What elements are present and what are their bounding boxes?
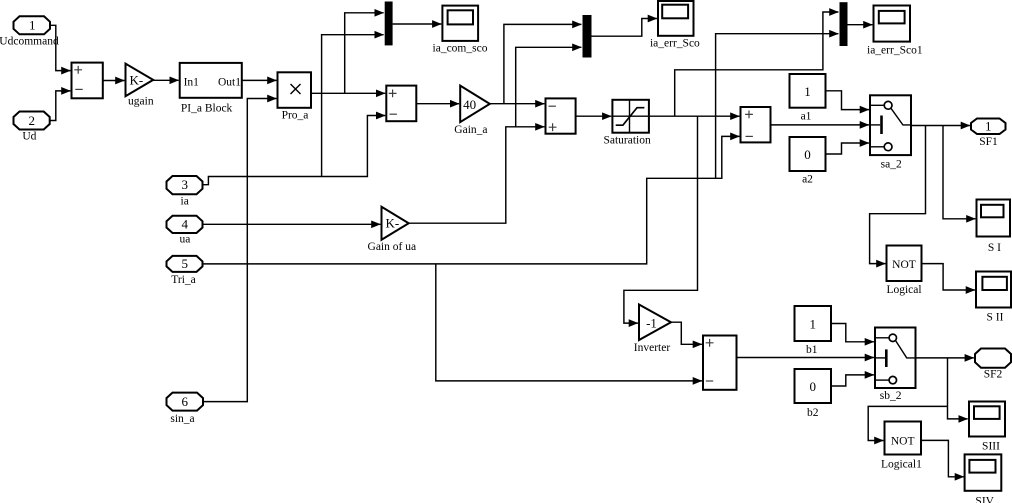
scope ia_com_sco [433, 6, 488, 55]
svg-text:In1: In1 [184, 76, 200, 88]
svg-text:1: 1 [804, 84, 811, 99]
wire branch to scope SIII [948, 358, 968, 419]
svg-text:Inverter: Inverter [634, 342, 671, 354]
svg-text:a2: a2 [802, 173, 813, 185]
svg-text:K-: K- [385, 216, 399, 231]
svg-text:NOT: NOT [892, 259, 916, 271]
wire constant b1 to sb_2 input 1 [831, 324, 874, 342]
wire Gain of ua to sum3 plus [409, 127, 545, 223]
constant a1 [790, 74, 826, 122]
scope SIV [965, 454, 1002, 503]
svg-text:3: 3 [181, 177, 188, 192]
svg-text:ia_com_sco: ia_com_sco [433, 42, 488, 54]
wire branch saturation to Inverter [624, 116, 698, 323]
svg-text:Ud: Ud [22, 131, 36, 143]
constant b1 [795, 306, 832, 356]
svg-text:Out1: Out1 [218, 76, 241, 88]
svg-text:Saturation: Saturation [603, 134, 651, 146]
saturation block [603, 100, 651, 147]
svg-text:SF2: SF2 [984, 368, 1003, 380]
gain ugain K- [126, 64, 154, 108]
svg-text:ugain: ugain [128, 95, 154, 107]
wire port6 sin_a to Pro_a input 2 [203, 99, 276, 402]
wire branch Tri_a to mux3 input 2 [716, 34, 839, 179]
wire branch ia to mux1 input 2 [322, 35, 384, 177]
subsystem PI_a Block [180, 63, 242, 114]
sum block 2 [386, 86, 416, 122]
wire sum4 to switch sa_2 middle input [771, 124, 869, 126]
logical operator NOT Logical1 [881, 422, 922, 471]
svg-text:40: 40 [463, 97, 476, 112]
svg-text:ia: ia [181, 196, 189, 208]
wire branch to NOT Logical [870, 126, 926, 264]
svg-text:b1: b1 [806, 344, 818, 356]
sum block 5 [703, 336, 737, 390]
svg-text:a1: a1 [801, 110, 812, 122]
svg-text:Gain of ua: Gain of ua [368, 241, 417, 253]
wire sum5 to switch sb_2 middle input [737, 357, 874, 359]
constant b2 [795, 369, 832, 419]
wire branch to mux2 input 2 [516, 47, 582, 127]
wire branch Tri_a to sum5 minus [436, 264, 702, 381]
scope S II [976, 272, 1011, 324]
scope ia_err_Sco1 [867, 6, 923, 57]
wire ugain to PI_a Block In1 [153, 79, 178, 81]
wire PI_a Out1 to Pro_a input 1 [242, 79, 277, 81]
sum block 1 [72, 63, 103, 99]
input port 5 Tri_a [167, 256, 203, 286]
input port 2 Ud [14, 112, 50, 143]
svg-text:Logical1: Logical1 [881, 458, 922, 470]
svg-text:ua: ua [179, 234, 190, 246]
svg-text:SIII: SIII [982, 440, 1000, 452]
svg-text:PI_a Block: PI_a Block [181, 102, 233, 114]
svg-text:0: 0 [804, 147, 811, 162]
wire sum3 to Saturation [576, 115, 612, 117]
svg-text:Logical: Logical [886, 284, 921, 296]
svg-text:SF1: SF1 [979, 136, 998, 148]
wire Logical1 to scope SIV [921, 440, 964, 476]
svg-text:b2: b2 [807, 407, 819, 419]
wire constant a2 to sa_2 input 3 [826, 143, 869, 154]
input port 4 ua [167, 216, 203, 246]
gain Gain of ua K- [368, 207, 417, 253]
svg-text:ia_err_Sco: ia_err_Sco [650, 37, 700, 49]
svg-text:S II: S II [987, 311, 1004, 323]
switch sa_2 [870, 95, 911, 170]
svg-text:1: 1 [29, 18, 36, 33]
svg-text:ia_err_Sco1: ia_err_Sco1 [867, 44, 923, 56]
svg-text:-1: -1 [646, 316, 657, 331]
wire sum2 to Gain_a [416, 103, 459, 105]
svg-text:S I: S I [988, 242, 1001, 254]
wire branch saturation to mux3 input 1 [675, 12, 839, 116]
scope S I [977, 200, 1011, 254]
sum block 3 [546, 98, 576, 133]
wire branch to NOT Logical1 [868, 406, 947, 440]
wire branch to mux2 input 1 [504, 24, 582, 103]
svg-text:sin_a: sin_a [170, 413, 194, 425]
svg-text:1: 1 [985, 118, 992, 133]
svg-text:Udcommand: Udcommand [0, 36, 59, 48]
scope SIII [969, 402, 1005, 453]
wire branch to scope S I [943, 126, 975, 219]
svg-text:sb_2: sb_2 [880, 390, 902, 402]
svg-text:NOT: NOT [891, 435, 915, 447]
svg-text:K-: K- [129, 72, 143, 87]
svg-text:sa_2: sa_2 [881, 158, 902, 170]
svg-text:SIV: SIV [975, 496, 994, 503]
mux 1 [385, 2, 393, 46]
wire mux3 to scope ia_err_Sco1 [848, 24, 873, 26]
wire mux1 to scope ia_com_sco [393, 23, 442, 25]
wire Gain_a to sum3 minus [490, 103, 545, 105]
wire port2 to sum1 minus [50, 91, 71, 121]
svg-text:4: 4 [181, 217, 188, 232]
wire port3 ia to sum2 minus [203, 116, 386, 185]
wire port1 to sum1 plus [50, 25, 70, 70]
svg-text:Tri_a: Tri_a [171, 274, 196, 286]
constant a2 [790, 137, 826, 185]
wire Logical to scope S II [922, 264, 975, 290]
gain Inverter -1 [634, 305, 671, 354]
svg-text:1: 1 [809, 316, 816, 331]
wire Saturation to sum4 plus [649, 115, 740, 117]
input port 1 Udcommand [0, 16, 59, 47]
wire sb_2 to output port SF2 [916, 357, 974, 359]
switch sb_2 [875, 328, 916, 402]
mux 3 [840, 2, 848, 46]
input port 6 sin_a [167, 393, 204, 425]
svg-text:2: 2 [29, 113, 36, 128]
output port SF2 [975, 349, 1011, 381]
product Pro_a [278, 72, 312, 121]
svg-text:5: 5 [181, 256, 188, 271]
scope ia_err_Sco [650, 1, 700, 49]
input port 3 ia [167, 176, 203, 208]
svg-text:0: 0 [809, 379, 816, 394]
wire Pro_a output to sum2 plus [311, 92, 385, 94]
wire port5 Tri_a to sum4 minus [203, 136, 740, 264]
wire Inverter to sum5 plus [671, 322, 702, 344]
wire constant b2 to sb_2 input 3 [831, 375, 874, 386]
sum block 4 [741, 107, 771, 142]
svg-text:Pro_a: Pro_a [282, 110, 309, 122]
wire port4 ua to Gain of ua [203, 223, 381, 225]
wire mux2 to scope ia_err_Sco [592, 19, 657, 37]
wire branch to mux1 input 1 [345, 13, 384, 94]
output port SF1 [971, 118, 1006, 147]
gain Gain_a 40 [454, 86, 490, 136]
wire sum1 to ugain [103, 80, 125, 82]
svg-text:6: 6 [181, 394, 188, 409]
wire sa_2 to output port SF1 [911, 125, 970, 127]
svg-text:Gain_a: Gain_a [454, 124, 487, 136]
logical operator NOT Logical [886, 246, 921, 296]
wire constant a1 to sa_2 input 1 [826, 91, 869, 110]
mux 2 [583, 15, 592, 58]
